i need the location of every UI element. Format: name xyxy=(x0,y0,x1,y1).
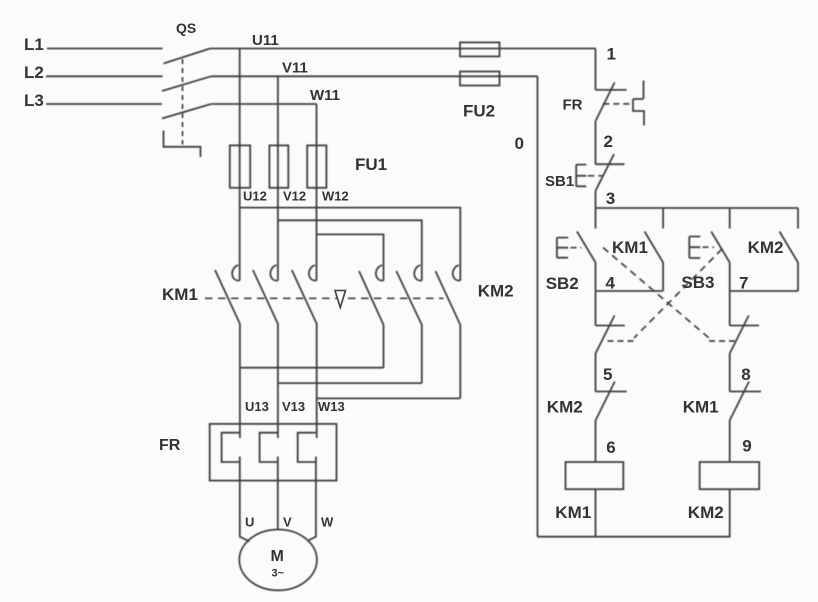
svg-text:W12: W12 xyxy=(322,189,349,204)
svg-text:V: V xyxy=(283,515,292,530)
svg-text:U13: U13 xyxy=(245,399,269,414)
svg-text:V13: V13 xyxy=(282,399,305,414)
svg-text:U12: U12 xyxy=(243,189,267,204)
svg-text:M: M xyxy=(271,548,284,565)
svg-text:KM2: KM2 xyxy=(478,282,514,301)
svg-text:1: 1 xyxy=(607,45,616,64)
svg-text:SB1: SB1 xyxy=(545,173,574,190)
svg-text:KM2: KM2 xyxy=(748,238,784,257)
svg-text:9: 9 xyxy=(742,437,751,456)
svg-text:SB2: SB2 xyxy=(546,274,579,293)
svg-text:FR: FR xyxy=(563,97,583,114)
svg-text:QS: QS xyxy=(176,20,196,36)
svg-text:FU1: FU1 xyxy=(355,155,387,174)
svg-text:7: 7 xyxy=(739,274,748,293)
svg-text:KM2: KM2 xyxy=(688,503,724,522)
svg-text:KM1: KM1 xyxy=(683,398,719,417)
svg-text:KM1: KM1 xyxy=(555,503,591,522)
svg-text:5: 5 xyxy=(603,365,612,384)
svg-text:L2: L2 xyxy=(24,63,44,82)
svg-text:3: 3 xyxy=(606,189,615,208)
svg-text:2: 2 xyxy=(604,132,613,151)
svg-text:FU2: FU2 xyxy=(463,102,495,121)
svg-text:W: W xyxy=(321,515,334,530)
svg-text:KM2: KM2 xyxy=(547,398,583,417)
svg-text:W11: W11 xyxy=(310,87,340,104)
svg-text:6: 6 xyxy=(606,438,615,457)
svg-text:KM1: KM1 xyxy=(612,238,648,257)
svg-text:3~: 3~ xyxy=(272,568,285,580)
svg-text:U: U xyxy=(245,515,254,530)
svg-text:W13: W13 xyxy=(318,399,345,414)
svg-text:0: 0 xyxy=(515,134,524,153)
svg-text:V11: V11 xyxy=(282,60,308,77)
svg-text:L1: L1 xyxy=(24,35,44,54)
svg-text:4: 4 xyxy=(606,274,616,293)
svg-text:U11: U11 xyxy=(252,32,279,49)
svg-text:SB3: SB3 xyxy=(681,273,714,292)
svg-text:L3: L3 xyxy=(24,91,44,110)
svg-text:8: 8 xyxy=(741,365,750,384)
svg-text:FR: FR xyxy=(159,437,181,454)
svg-text:V12: V12 xyxy=(283,189,306,204)
svg-text:KM1: KM1 xyxy=(162,285,198,304)
